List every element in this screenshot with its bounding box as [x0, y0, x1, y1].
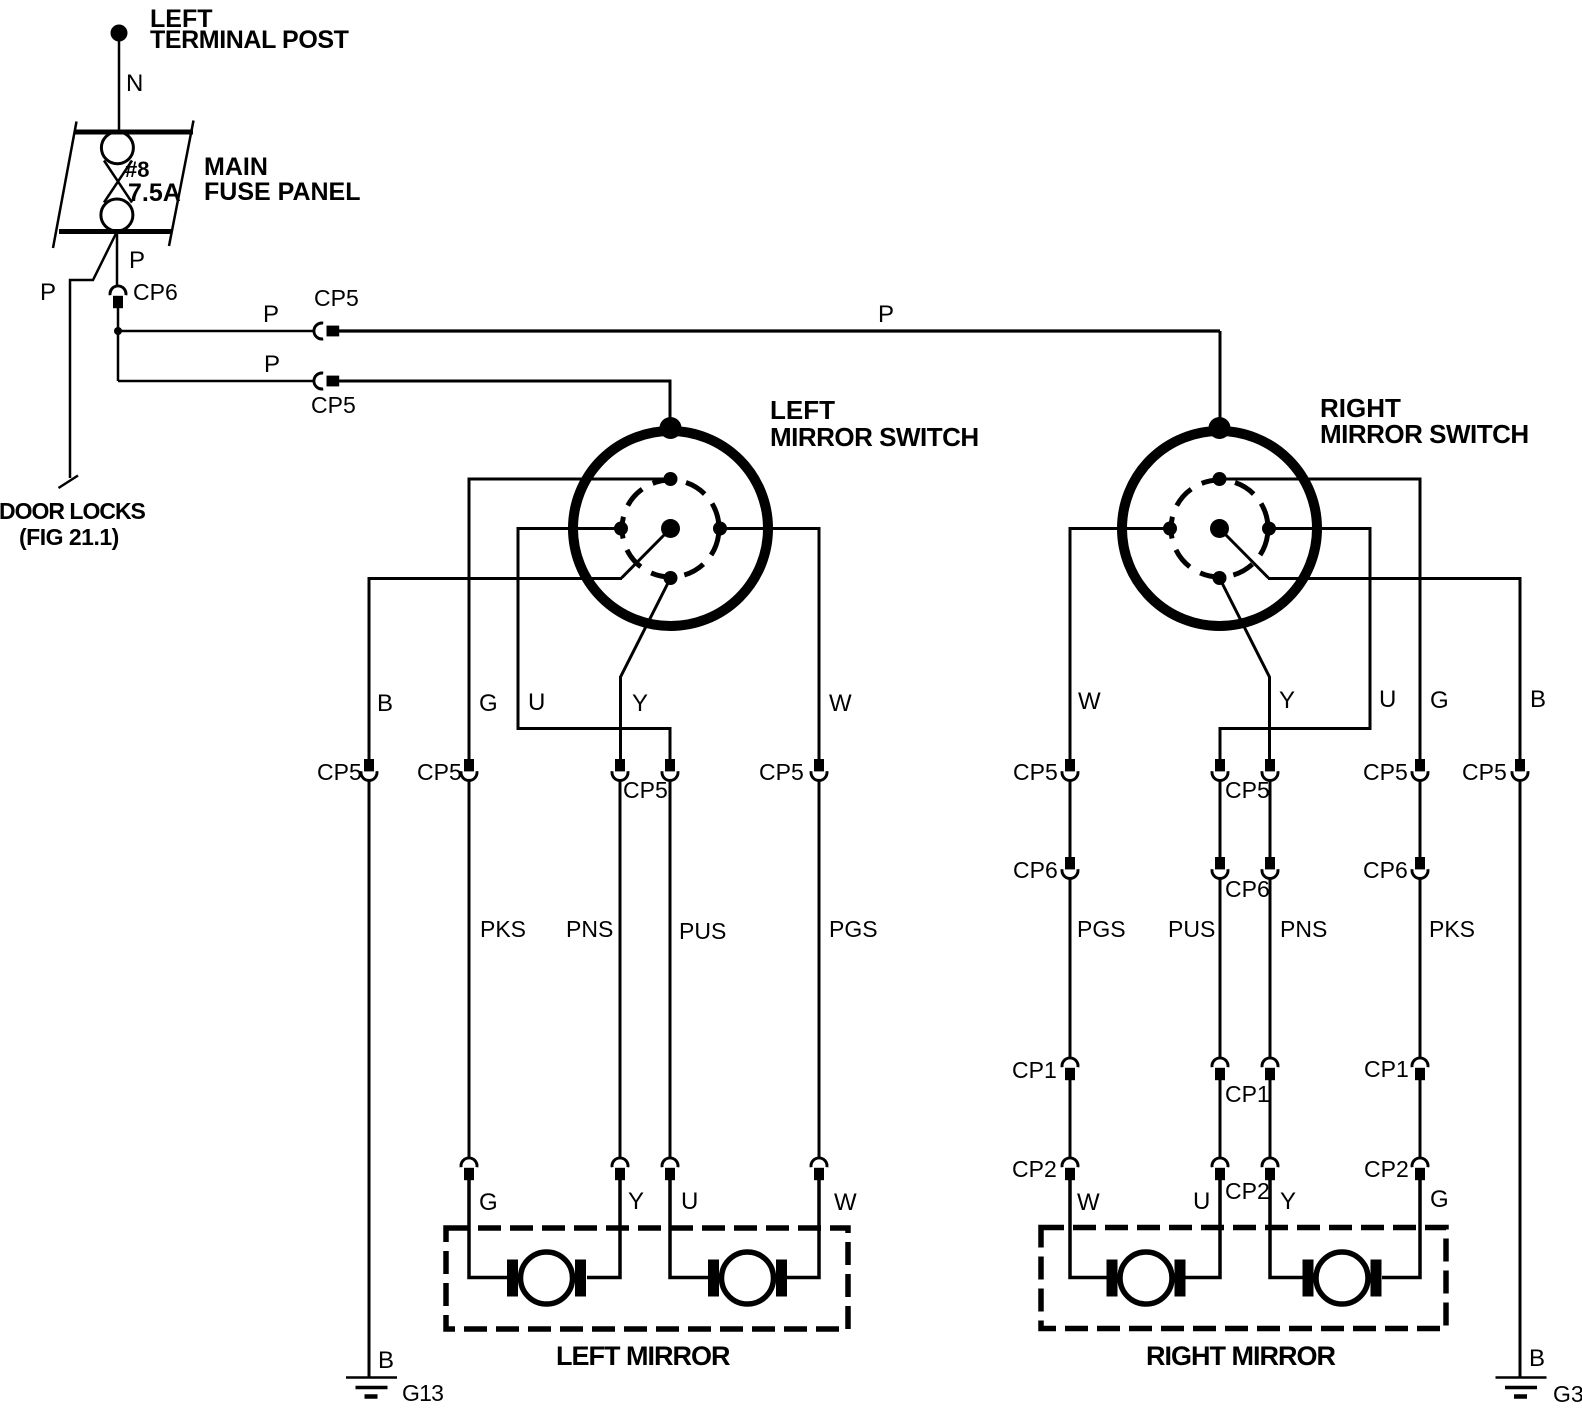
svg-text:P: P — [878, 301, 894, 328]
svg-text:FUSE PANEL: FUSE PANEL — [204, 178, 361, 206]
svg-text:PGS: PGS — [829, 916, 878, 942]
svg-text:CP6: CP6 — [1225, 876, 1270, 902]
svg-text:7.5A: 7.5A — [128, 179, 181, 207]
svg-text:G: G — [479, 690, 498, 717]
svg-text:LEFT MIRROR: LEFT MIRROR — [556, 1341, 730, 1371]
svg-text:U: U — [681, 1188, 698, 1215]
svg-text:LEFT: LEFT — [770, 395, 835, 425]
svg-text:MIRROR SWITCH: MIRROR SWITCH — [1320, 419, 1529, 449]
svg-text:P: P — [40, 279, 56, 306]
svg-text:PUS: PUS — [679, 918, 726, 944]
svg-text:B: B — [377, 690, 393, 717]
svg-text:CP1: CP1 — [1012, 1057, 1057, 1083]
svg-text:P: P — [264, 351, 280, 378]
svg-text:PNS: PNS — [1280, 916, 1327, 942]
svg-text:CP6: CP6 — [1363, 857, 1408, 883]
svg-text:PUS: PUS — [1168, 916, 1215, 942]
svg-text:Y: Y — [1279, 687, 1295, 714]
svg-text:P: P — [129, 247, 145, 274]
svg-text:CP2: CP2 — [1364, 1156, 1409, 1182]
svg-text:Y: Y — [1280, 1188, 1296, 1215]
svg-text:B: B — [378, 1347, 394, 1374]
svg-text:CP2: CP2 — [1225, 1178, 1270, 1204]
svg-text:DOOR LOCKS: DOOR LOCKS — [0, 498, 146, 524]
svg-text:CP5: CP5 — [311, 392, 356, 418]
svg-text:G3: G3 — [1553, 1381, 1582, 1407]
svg-text:CP5: CP5 — [317, 759, 362, 785]
svg-text:PGS: PGS — [1077, 916, 1126, 942]
svg-text:CP6: CP6 — [133, 279, 178, 305]
svg-text:(FIG 21.1): (FIG 21.1) — [19, 524, 119, 550]
svg-text:U: U — [1193, 1188, 1210, 1215]
svg-text:PKS: PKS — [480, 916, 526, 942]
svg-text:G13: G13 — [402, 1380, 443, 1406]
svg-text:MIRROR SWITCH: MIRROR SWITCH — [770, 422, 979, 452]
svg-text:CP5: CP5 — [759, 759, 804, 785]
svg-text:CP6: CP6 — [1013, 857, 1058, 883]
svg-text:G: G — [1430, 687, 1449, 714]
svg-text:B: B — [1530, 686, 1546, 713]
svg-text:TERMINAL POST: TERMINAL POST — [150, 26, 349, 54]
svg-text:N: N — [126, 70, 143, 97]
svg-text:PKS: PKS — [1429, 916, 1475, 942]
svg-text:U: U — [1379, 686, 1396, 713]
svg-text:U: U — [528, 689, 545, 716]
svg-text:G: G — [1430, 1186, 1449, 1213]
svg-text:W: W — [829, 690, 852, 717]
svg-text:CP1: CP1 — [1225, 1081, 1270, 1107]
svg-text:CP5: CP5 — [623, 777, 668, 803]
svg-text:CP1: CP1 — [1364, 1056, 1409, 1082]
svg-text:B: B — [1529, 1345, 1545, 1372]
svg-text:CP5: CP5 — [1363, 759, 1408, 785]
svg-text:CP5: CP5 — [417, 759, 462, 785]
svg-text:MAIN: MAIN — [204, 153, 268, 181]
svg-text:W: W — [834, 1189, 857, 1216]
svg-text:CP5: CP5 — [1462, 759, 1507, 785]
svg-text:G: G — [479, 1189, 498, 1216]
svg-text:W: W — [1077, 1189, 1100, 1216]
svg-text:RIGHT MIRROR: RIGHT MIRROR — [1146, 1341, 1335, 1371]
svg-text:CP5: CP5 — [314, 285, 359, 311]
svg-text:CP5: CP5 — [1225, 777, 1270, 803]
svg-text:P: P — [263, 301, 279, 328]
svg-text:PNS: PNS — [566, 916, 613, 942]
svg-text:CP2: CP2 — [1012, 1156, 1057, 1182]
svg-text:CP5: CP5 — [1013, 759, 1058, 785]
svg-text:W: W — [1078, 688, 1101, 715]
svg-text:Y: Y — [632, 690, 648, 717]
svg-text:Y: Y — [628, 1188, 644, 1215]
